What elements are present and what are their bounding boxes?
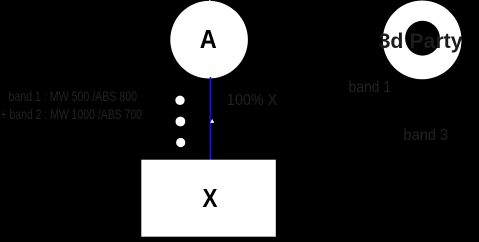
dotted marks (three dots) bbox=[175, 96, 184, 105]
wire stub above node A bbox=[209, 0, 210, 2]
svg-text:+ band 2 : MW 1000 /ABS 700: + band 2 : MW 1000 /ABS 700 bbox=[1, 106, 143, 122]
svg-text:band 1 : MW 500 /ABS 800: band 1 : MW 500 /ABS 800 bbox=[9, 88, 138, 104]
svg-text:band 1: band 1 bbox=[349, 79, 392, 96]
svg-text:A: A bbox=[200, 24, 217, 54]
3d party ring (donut) bbox=[383, 1, 462, 80]
arrowhead on wire bbox=[210, 119, 214, 123]
node A (circle) bbox=[170, 1, 248, 79]
svg-text:band 3: band 3 bbox=[404, 127, 449, 144]
svg-text:100% X: 100% X bbox=[227, 92, 278, 109]
svg-text:3d Party: 3d Party bbox=[379, 30, 463, 53]
svg-text:X: X bbox=[203, 183, 219, 213]
wire A to X (blue edge) bbox=[210, 77, 212, 160]
node X (rectangle) bbox=[141, 160, 275, 237]
